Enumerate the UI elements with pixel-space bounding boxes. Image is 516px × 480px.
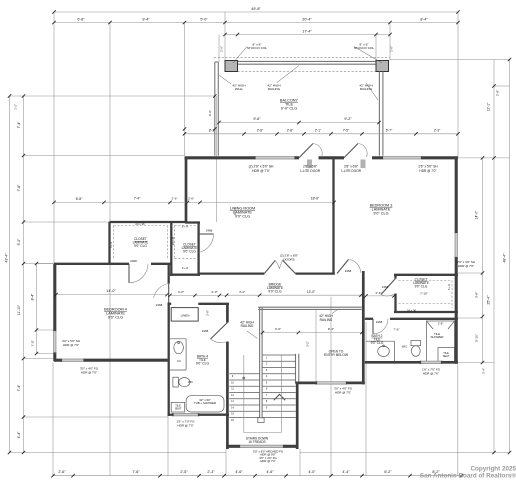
bath2 vanity — [366, 340, 395, 342]
svg-text:ENTRY BELOW: ENTRY BELOW — [324, 353, 349, 357]
svg-text:HDR @ 7'0": HDR @ 7'0" — [63, 343, 79, 347]
svg-text:9'0" CLG: 9'0" CLG — [196, 362, 210, 366]
stucco column right — [376, 61, 389, 72]
svg-text:7'-6": 7'-6" — [394, 328, 400, 332]
svg-text:9'0" CLG: 9'0" CLG — [415, 285, 428, 289]
svg-text:HDR @ 7'0": HDR @ 7'0" — [419, 169, 436, 173]
wall: bath4 bottom — [168, 414, 173, 416]
wall: living room / bedroom3 partition — [332, 158, 334, 274]
wall: bath4 top — [168, 303, 172, 305]
svg-text:DOORS: DOORS — [283, 257, 294, 261]
svg-text:9: 9 — [232, 375, 234, 378]
dim row bottom — [51, 474, 54, 477]
balcony dashed roof line — [214, 56, 390, 58]
bath2 shower — [427, 321, 455, 362]
dim bedroom4 14'-0 — [56, 294, 167, 296]
svg-text:W/C: W/C — [188, 380, 193, 384]
wall: closet2 bottom — [170, 274, 200, 276]
svg-text:3'-8": 3'-8" — [475, 292, 479, 298]
svg-text:11: 11 — [231, 388, 234, 391]
svg-text:San Antonio Board of Realtors®: San Antonio Board of Realtors® — [420, 472, 516, 480]
wall: closet1 left — [108, 222, 110, 263]
door: closet3 — [381, 279, 396, 295]
svg-text:HDR @ 7'0": HDR @ 7'0" — [458, 264, 474, 268]
svg-text:7: 7 — [266, 394, 268, 397]
window: bedroom4 left 3'0x5'0 SH — [54, 330, 56, 354]
svg-text:LINEN: LINEN — [181, 314, 190, 318]
svg-text:HDR @ 7'0": HDR @ 7'0" — [81, 370, 97, 374]
svg-text:HDR @ 7'0": HDR @ 7'0" — [260, 459, 276, 463]
bath2 toilet — [411, 341, 421, 346]
svg-text:6'-8": 6'-8" — [76, 197, 83, 201]
svg-text:1'-6": 1'-6" — [390, 46, 394, 52]
svg-text:9: 9 — [266, 406, 268, 409]
svg-text:2468: 2468 — [345, 269, 352, 273]
svg-text:S + R: S + R — [447, 284, 451, 291]
svg-text:9'0" CLG: 9'0" CLG — [235, 215, 250, 219]
svg-text:7'-10": 7'-10" — [420, 291, 428, 295]
dim left: overall 43'-4" — [8, 94, 11, 97]
svg-text:7'-8": 7'-8" — [17, 184, 21, 192]
svg-text:2'-4": 2'-4" — [482, 368, 486, 374]
svg-text:49'-8": 49'-8" — [251, 7, 261, 11]
dim row: 6'-8" 9'-4" 5'-0" 20'-4" 8'-4" — [54, 22, 458, 24]
svg-text:6'-8": 6'-8" — [77, 18, 85, 22]
svg-text:STUCCO COL: STUCCO COL — [354, 46, 375, 50]
closet1 shelf dashes — [114, 225, 168, 227]
svg-text:14: 14 — [231, 406, 234, 409]
svg-text:11'-10": 11'-10" — [17, 304, 21, 315]
svg-text:SHOWER: SHOWER — [430, 335, 443, 339]
wall: top exterior — [185, 156, 255, 159]
svg-text:18'-6": 18'-6" — [311, 196, 320, 200]
svg-text:4'-6": 4'-6" — [266, 470, 274, 474]
svg-text:SEAT: SEAT — [175, 407, 182, 411]
stair treads left flight — [229, 373, 259, 375]
svg-text:2468: 2468 — [156, 303, 163, 307]
svg-text:8: 8 — [266, 400, 268, 403]
svg-text:25'-4": 25'-4" — [487, 295, 491, 305]
svg-text:2'-8": 2'-8" — [206, 310, 210, 316]
linen closet — [171, 308, 198, 322]
svg-text:2468: 2468 — [202, 329, 209, 333]
dim bridge 13'-0 — [227, 294, 361, 296]
dim right: 12'-1" 25'-4" — [492, 84, 495, 87]
wall: bath2 bottom — [365, 361, 420, 364]
svg-text:2'-5": 2'-5" — [180, 470, 188, 474]
svg-text:2: 2 — [266, 363, 268, 366]
svg-text:HDR @ 7'0": HDR @ 7'0" — [177, 423, 193, 427]
wall: bedroom3 bottom left + door — [337, 260, 349, 274]
svg-text:2'8" x 6'8": 2'8" x 6'8" — [303, 164, 317, 168]
svg-text:4'-4": 4'-4" — [239, 290, 245, 294]
svg-text:RAILING: RAILING — [320, 318, 333, 322]
extension lines bottom — [52, 363, 54, 476]
balcony wall left 42in — [214, 62, 216, 156]
window: bath4 bottom 1'6x7'0 FG — [173, 414, 200, 416]
svg-text:43'-4": 43'-4" — [5, 253, 9, 263]
stair treads right flight — [262, 354, 296, 356]
dim left: segment dims — [22, 94, 25, 97]
svg-text:4'-4": 4'-4" — [342, 470, 350, 474]
closet3 walls — [394, 275, 396, 279]
svg-text:1'-2": 1'-2" — [14, 104, 18, 110]
svg-text:9'0" CLG: 9'0" CLG — [373, 212, 388, 216]
svg-text:17'-4": 17'-4" — [302, 30, 312, 34]
svg-text:20'-4": 20'-4" — [302, 18, 312, 22]
svg-text:SEAT: SEAT — [443, 354, 450, 358]
wall: bath4 left / bedroom4 right — [168, 264, 170, 284]
wall: living room left lower — [197, 223, 199, 276]
svg-text:W/C: W/C — [402, 345, 407, 349]
stair direction arrow — [274, 394, 285, 400]
extension lines left — [9, 96, 11, 453]
extension lines top — [53, 12, 55, 264]
closet3 shelf dashes — [399, 280, 453, 282]
stair walk lines — [243, 355, 245, 433]
svg-text:1'-6": 1'-6" — [220, 46, 224, 52]
svg-text:4'-0": 4'-0" — [308, 470, 316, 474]
svg-text:2468: 2468 — [376, 320, 383, 324]
svg-text:2'-8": 2'-8" — [257, 128, 264, 132]
svg-text:4'-4": 4'-4" — [17, 431, 21, 439]
svg-text:7'-4": 7'-4" — [17, 121, 21, 129]
svg-text:6'-2": 6'-2" — [384, 470, 392, 474]
svg-text:2'-8": 2'-8" — [287, 128, 294, 132]
extension lines right — [482, 158, 484, 363]
railing: stairwell top — [258, 306, 362, 308]
window: living room (2)2'6x5'0 SH — [255, 157, 296, 159]
wall: stairwell east upper (gray rail) — [295, 354, 297, 384]
dim row: 1'-6" 17'-4" 1'-6" — [225, 34, 390, 36]
svg-text:9'0" CLG: 9'0" CLG — [134, 244, 147, 248]
dim 2'-6 vestibule — [366, 295, 394, 297]
door: bath4 — [211, 323, 228, 340]
window: bedroom3 2'6x5'0 SH — [382, 157, 422, 159]
svg-text:7'-5": 7'-5" — [343, 128, 350, 132]
svg-text:13: 13 — [231, 400, 234, 403]
svg-text:9'0" CLG: 9'0" CLG — [108, 316, 123, 320]
svg-text:9'-2": 9'-2" — [344, 117, 352, 121]
svg-text:4: 4 — [266, 375, 268, 378]
svg-text:2'-6": 2'-6" — [376, 291, 382, 295]
svg-text:3: 3 — [266, 369, 268, 372]
svg-text:2'-3": 2'-3" — [434, 128, 441, 132]
svg-text:4'-6": 4'-6" — [275, 327, 281, 331]
svg-text:5: 5 — [266, 381, 268, 384]
svg-text:24 x 36: 24 x 36 — [135, 222, 145, 226]
svg-text:7'-4": 7'-4" — [134, 196, 141, 200]
dim: living room interior row — [54, 201, 334, 203]
door: living room balcony 1-lite — [299, 144, 313, 158]
wall: bedroom4 bottom — [54, 359, 61, 362]
dim left: inner segments — [35, 262, 38, 265]
svg-text:1-LITE DOOR: 1-LITE DOOR — [341, 169, 362, 173]
wall: closets bottom / bedroom4 top — [54, 263, 129, 265]
svg-text:1-LITE DOOR: 1-LITE DOOR — [300, 169, 321, 173]
svg-text:2'-0": 2'-0" — [211, 290, 217, 294]
svg-text:5'-0": 5'-0" — [200, 18, 208, 22]
svg-text:3'-2": 3'-2" — [306, 341, 310, 346]
wall: stairwell west — [226, 304, 229, 323]
svg-text:9'0" CLG: 9'0" CLG — [183, 250, 196, 254]
svg-text:13'-0": 13'-0" — [307, 290, 316, 294]
svg-text:5'-10": 5'-10" — [475, 334, 479, 342]
svg-text:S + R: S + R — [182, 225, 189, 229]
newel post — [258, 418, 264, 423]
svg-text:7'-6": 7'-6" — [132, 470, 140, 474]
svg-text:2'-11": 2'-11" — [31, 340, 35, 346]
svg-text:9'-4": 9'-4" — [142, 18, 150, 22]
svg-text:9'0" CLG: 9'0" CLG — [268, 290, 282, 294]
svg-text:2468: 2468 — [130, 259, 137, 263]
svg-text:S + R: S + R — [109, 242, 113, 249]
wall: open area bottom with window — [296, 382, 317, 385]
svg-text:14'-0": 14'-0" — [106, 289, 116, 293]
svg-text:8'-4": 8'-4" — [328, 327, 334, 331]
svg-text:WALL: WALL — [235, 87, 244, 91]
bath4 vanity — [170, 338, 186, 340]
door: bedroom4 — [168, 284, 170, 303]
svg-text:2468: 2468 — [206, 229, 213, 233]
svg-text:5'-2": 5'-2" — [17, 238, 21, 246]
svg-text:2'8" x 6'8": 2'8" x 6'8" — [344, 164, 358, 168]
wall: bath2 top — [365, 318, 373, 320]
dim 4'-6 open area — [263, 332, 299, 334]
extension line open-area window — [315, 309, 317, 383]
wall: bottom exterior — [226, 445, 239, 448]
svg-text:6'-6": 6'-6" — [208, 110, 212, 116]
svg-text:2'6" x 5'0" SH: 2'6" x 5'0" SH — [418, 164, 438, 168]
svg-text:9'-0" CLG: 9'-0" CLG — [281, 107, 297, 111]
balcony railing top — [238, 60, 377, 62]
svg-text:2468: 2468 — [382, 285, 389, 289]
svg-text:24 x 36: 24 x 36 — [407, 308, 417, 312]
wall: closet1/2 shared — [170, 222, 172, 276]
window: bedroom3 right 2'0x3'0 SH — [455, 232, 457, 258]
bath2 tile seat — [438, 348, 455, 362]
svg-text:15: 15 — [231, 413, 234, 416]
svg-text:16: 16 — [231, 419, 234, 422]
svg-text:HDR @ 7'0": HDR @ 7'0" — [252, 169, 271, 173]
svg-text:2'-6": 2'-6" — [172, 196, 178, 200]
svg-text:RAILING: RAILING — [360, 87, 373, 91]
wall: closet1/2 top — [110, 221, 187, 223]
dim row balcony width — [219, 122, 379, 124]
svg-text:48'-4": 48'-4" — [503, 253, 507, 263]
wall: vestibule west — [362, 271, 365, 384]
wall: stairwell east lower — [296, 382, 299, 449]
svg-text:STUCCO COL: STUCCO COL — [247, 46, 268, 50]
svg-text:(2) 2'6" x 5'0" SH: (2) 2'6" x 5'0" SH — [249, 164, 274, 168]
svg-text:CC: CC — [177, 359, 181, 363]
svg-text:8'-4": 8'-4" — [31, 293, 35, 301]
wall: living room left upper — [185, 158, 188, 222]
window: bedroom4 bottom 3'0x4'0 FG — [61, 359, 85, 361]
svg-text:8'-4": 8'-4" — [420, 18, 428, 22]
svg-text:9'-6": 9'-6" — [253, 117, 261, 121]
svg-text:6: 6 — [266, 388, 268, 391]
svg-text:2'-1": 2'-1" — [315, 128, 322, 132]
dim right: overall 48'-4" — [508, 58, 511, 61]
svg-text:RAILING: RAILING — [241, 324, 254, 328]
svg-text:10: 10 — [231, 381, 234, 384]
window: arched FG bottom — [239, 445, 284, 447]
wall: bedroom4 left — [53, 264, 56, 330]
door: closet1 to bedroom4 — [128, 264, 130, 283]
closet2 shelf dashes — [175, 225, 196, 227]
door: bedroom3 balcony 1-lite — [344, 144, 358, 158]
railing: stairwell west vertical — [259, 307, 261, 418]
svg-text:2'-6": 2'-6" — [58, 470, 66, 474]
balcony railing right 42in — [378, 72, 380, 156]
svg-text:5'-7": 5'-7" — [386, 128, 393, 132]
wall: bedroom3 bottom / closet3 top — [394, 274, 458, 276]
dim right: 14'-0" 3'-8" 5'-10" — [481, 156, 484, 159]
wall: house right — [455, 158, 458, 232]
svg-text:10'-4": 10'-4" — [233, 207, 237, 215]
svg-text:RAILING: RAILING — [268, 87, 281, 91]
dim row: overall 49'-8" — [54, 11, 458, 13]
svg-text:4'-0": 4'-0" — [178, 290, 184, 294]
wall: living room bottom — [199, 272, 265, 274]
svg-text:2'-8": 2'-8" — [496, 90, 500, 96]
extension line balcony wall through living room — [216, 96, 218, 222]
double doors living/bridge — [264, 260, 275, 273]
dim hall 4'-0 2'-0 — [170, 294, 226, 296]
svg-text:24 x 36: 24 x 36 — [172, 236, 175, 245]
svg-text:2'-8": 2'-8" — [438, 322, 444, 326]
svg-text:S + R: S + R — [182, 266, 189, 270]
svg-text:12: 12 — [231, 394, 234, 397]
svg-text:2'-6": 2'-6" — [188, 196, 194, 200]
wall: living room left jog — [185, 221, 200, 223]
stucco column left — [225, 61, 238, 72]
bath4 tile seat — [171, 402, 185, 412]
door: closet2 — [199, 233, 214, 235]
svg-text:12'-1": 12'-1" — [487, 102, 491, 111]
bath4 toilet — [173, 377, 178, 387]
dim row top wall openings — [185, 133, 459, 135]
svg-text:TUB + SHOWER: TUB + SHOWER — [194, 401, 216, 405]
svg-text:HDR @ 7'0": HDR @ 7'0" — [335, 390, 351, 394]
svg-text:HDR @ 7'0": HDR @ 7'0" — [423, 371, 439, 375]
bath4 tub — [186, 396, 224, 412]
svg-text:Copyright 2025: Copyright 2025 — [471, 466, 516, 473]
svg-text:2'-3": 2'-3" — [207, 470, 215, 474]
svg-text:16 TREADS: 16 TREADS — [248, 440, 265, 444]
svg-text:4'-6": 4'-6" — [235, 470, 243, 474]
svg-text:7'-4": 7'-4" — [17, 384, 21, 392]
svg-text:1: 1 — [266, 356, 268, 359]
svg-text:14'-0": 14'-0" — [475, 210, 479, 219]
door: bath2 — [372, 319, 374, 334]
